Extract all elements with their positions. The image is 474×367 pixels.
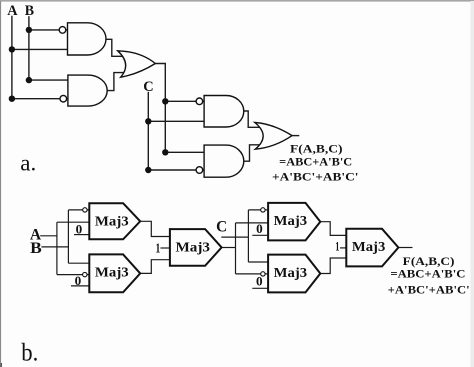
wire: MR2 output step to MF (320, 258, 346, 274)
svg-text:B: B (25, 3, 34, 19)
bubble AND3 input X' (196, 98, 203, 105)
Maj3 gate MR1 (268, 203, 320, 241)
svg-text:0: 0 (76, 222, 83, 237)
wire: input A stub (40, 235, 57, 237)
svg-text:=ABC+A'B'C: =ABC+A'B'C (279, 154, 352, 168)
wire: MR1 output step to MF (320, 222, 346, 236)
wire: OR1 output down to stage 2 (155, 64, 165, 153)
wire: A to AND1 lower input (12, 48, 68, 50)
svg-text:B: B (30, 240, 42, 257)
Maj3 gate ML2 (89, 254, 140, 292)
wire: ML1 output step to MM (140, 221, 170, 236)
junction dot B-AND1 (26, 27, 32, 33)
wire: MM output to V3 (222, 247, 236, 249)
wire: AND2 output step to OR1 (107, 73, 126, 91)
bubble AND1 input B' (59, 27, 66, 34)
wire: B' to ML1 bubble (68, 209, 89, 211)
wire: C to MR2 top (248, 261, 268, 263)
bubble AND2 input A' (60, 95, 67, 102)
junction dot A-AND1 (9, 46, 15, 52)
wire: input C vertical (147, 92, 149, 170)
Maj3 gate MM (170, 229, 222, 266)
wire: C input jumper to V4 (221, 236, 248, 238)
wire: const1 stub MM (161, 247, 170, 249)
right border (471, 1, 474, 367)
wire: input B vertical (28, 16, 30, 80)
wire: OR2 output F (292, 135, 299, 137)
wire: C to AND4 bubble (148, 169, 204, 171)
svg-text:a.: a. (20, 151, 36, 176)
junction dot C-AND3 (145, 118, 151, 124)
wire: X to MR1 middle (236, 222, 269, 224)
Maj3 gate MF (346, 229, 398, 267)
bubble ML1 input B' (83, 208, 87, 212)
wire: AND4 output step to OR2 (244, 145, 260, 161)
svg-text:C: C (216, 218, 227, 235)
junction dot B-AND2 (26, 77, 32, 83)
wire: X' to MR2 bubble (236, 273, 269, 275)
AND gate 4 (X·C') (204, 145, 244, 177)
junction dot X-AND3 (162, 98, 168, 104)
wire: AND3 output step to OR2 (244, 111, 260, 127)
svg-text:Maj3: Maj3 (274, 265, 308, 280)
wire: input B stub (41, 246, 68, 248)
OR gate 1 (118, 51, 156, 77)
junction dot C-AND4 (145, 167, 151, 173)
svg-text:Maj3: Maj3 (95, 265, 129, 280)
svg-text:A: A (7, 3, 17, 19)
wire: X to AND3 bubble (165, 100, 204, 102)
svg-text:0: 0 (75, 273, 82, 288)
AND gate 2 (A'·B) (68, 75, 107, 106)
wire: AND1 output step to OR1 (106, 39, 124, 56)
junction dot X-AND4 (162, 149, 168, 155)
svg-text:Maj3: Maj3 (95, 214, 129, 229)
wire: B to ML2 top (68, 262, 89, 264)
AND gate 3 (X'·C) (204, 96, 244, 128)
wire: A to ML1 middle (57, 221, 89, 223)
svg-text:C: C (143, 79, 153, 95)
junction dot A-AND2 (9, 96, 15, 102)
wire: input A vertical (11, 16, 13, 99)
svg-text:Maj3: Maj3 (274, 213, 308, 228)
AND gate 1 (A·B') (68, 23, 106, 55)
bubble ML2 input A' (83, 272, 87, 276)
OR gate 2 (255, 123, 292, 150)
wire: B to AND1 bubble (29, 29, 68, 31)
wire: C' to MR1 bubble (248, 209, 268, 211)
left border (0, 1, 1, 367)
svg-text:0: 0 (256, 274, 263, 289)
Maj3 gate MR2 (268, 255, 320, 293)
wire: const1 stub MF (340, 247, 346, 249)
wire: const0 stub ML2 (71, 285, 89, 287)
wire: A' to ML2 bubble (57, 274, 89, 276)
top border (0, 0, 474, 2)
corner mark bottom-left (1, 363, 3, 367)
Maj3 gate ML1 (89, 203, 140, 239)
wire: MF output F (398, 247, 412, 249)
wire: const0 stub ML1 (74, 234, 89, 236)
wire: vertical V2 (B) (67, 210, 69, 263)
svg-text:+A'BC'+AB'C': +A'BC'+AB'C' (272, 170, 359, 184)
wire: A to AND2 bubble (12, 98, 68, 100)
svg-text:=ABC+A'B'C: =ABC+A'B'C (390, 267, 465, 281)
wire: const0 stub MR1 (252, 234, 268, 236)
wire: C to AND3 lower input (148, 120, 204, 122)
wire: vertical V4 (C) (247, 210, 249, 262)
wire: B to AND2 upper input (29, 79, 68, 81)
bubble AND4 input C' (196, 167, 203, 174)
svg-text:Maj3: Maj3 (176, 239, 211, 254)
svg-text:Maj3: Maj3 (352, 239, 386, 254)
wire: const0 stub MR2 (252, 287, 268, 289)
svg-text:1: 1 (156, 242, 161, 257)
wire: X to AND4 upper input (165, 151, 204, 153)
svg-text:+A'BC'+AB'C': +A'BC'+AB'C' (388, 283, 470, 297)
svg-text:b.: b. (21, 339, 38, 366)
svg-text:1: 1 (335, 240, 339, 254)
svg-text:0: 0 (256, 221, 263, 236)
wire: ML2 output step to MM (140, 260, 170, 274)
wire: vertical V1 (A) (56, 222, 58, 274)
bubble MR1 input C' (261, 208, 265, 212)
wire: vertical V3 (X) (235, 223, 237, 274)
bubble MR2 input X' (261, 272, 265, 276)
